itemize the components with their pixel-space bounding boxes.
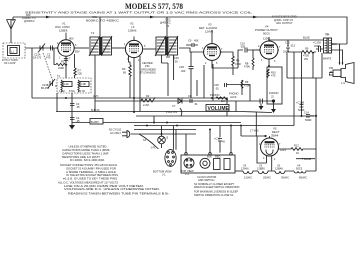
trimmer C21B (48, 79, 55, 88)
svg-text:5.5Ω: 5.5Ω (69, 89, 75, 93)
resistor R10 470 (267, 69, 269, 78)
wire V2 plate to T3 (144, 48, 156, 50)
svg-text:C8: C8 (188, 94, 192, 98)
svg-text:SWITCH OPERATION CLOSE S1.: SWITCH OPERATION CLOSE S1. (194, 193, 234, 197)
svg-text:C7: C7 (172, 104, 176, 108)
svg-text:PHONO: PHONO (269, 91, 279, 95)
svg-text:.012: .012 (290, 44, 296, 48)
phono contact dot (272, 99, 275, 102)
svg-text:@600KC: @600KC (24, 19, 35, 23)
resistor R2 2.2M (141, 98, 155, 103)
svg-text:18-175: 18-175 (33, 56, 42, 60)
svg-text:1K: 1K (296, 151, 299, 155)
terminals on clock box (185, 153, 232, 155)
svg-text:50C5: 50C5 (296, 166, 303, 170)
heater string (235, 171, 316, 174)
wire antenna branch down to AVC bus (31, 48, 33, 98)
svg-text:JACK: JACK (230, 95, 237, 99)
wire C10 to V4 grid (252, 49, 260, 51)
socket J1 bottom view (165, 150, 176, 167)
pilot lamp I1 (158, 126, 166, 148)
svg-text:L-S: L-S (341, 81, 345, 85)
B-bus (56, 112, 272, 113)
B+ bus (103, 122, 241, 124)
resistor R1 horizontal (56, 63, 67, 65)
wire 116 to B+ (153, 116, 155, 123)
capacitor C4 .05 (70, 118, 75, 120)
notes block (58, 145, 170, 196)
label 40% 600KC TO 455KC (86, 15, 119, 22)
ground below C4 (69, 125, 75, 130)
svg-text:R9: R9 (305, 47, 309, 51)
svg-text:85V: 85V (75, 50, 80, 54)
svg-text:1.4Ω: 1.4Ω (59, 89, 65, 93)
AC interlock plug P1 (122, 131, 130, 138)
svg-text:T2: T2 (91, 31, 95, 35)
svg-text:90V: 90V (69, 36, 74, 40)
AC line 2 from plug (131, 133, 196, 135)
wire T3 bottom stubs (161, 55, 173, 63)
wire V2 cathode down to B-bus (133, 62, 135, 112)
svg-text:600KC TO 455KC: 600KC TO 455KC (86, 18, 119, 22)
ground at phono center (273, 103, 275, 110)
svg-text:40MF: 40MF (314, 44, 321, 48)
svg-text:MODELS 577, 578: MODELS 577, 578 (125, 2, 183, 11)
wire osc coil mid leg down (71, 93, 73, 125)
volume pot arrow (226, 98, 228, 116)
svg-text:14.7Ω: 14.7Ω (78, 89, 85, 93)
svg-text:.05: .05 (76, 105, 80, 109)
antenna (7, 20, 16, 44)
resistor R9 4700 2W (288, 51, 316, 54)
loop antenna dashed box (3, 43, 25, 58)
svg-text:1M: 1M (221, 99, 225, 103)
svg-text:2W: 2W (304, 57, 308, 61)
tube V4 (259, 37, 279, 63)
svg-text:12AV6: 12AV6 (241, 166, 249, 170)
output transformer T4 (324, 33, 332, 53)
svg-text:WHEN IN SLEEP SWITCH OPERATION: WHEN IN SLEEP SWITCH OPERATION. (194, 185, 240, 189)
wire osc coil left leg down to B-bus (55, 86, 57, 112)
resistor R3 68 ohm (129, 65, 131, 98)
label OSC @455KC T3 (160, 17, 171, 28)
wire V1 plate to T2 (74, 47, 89, 49)
capacitor C8 .01 (190, 99, 192, 103)
svg-text:READINGS TAKEN BETWEEN TUBE PI: READINGS TAKEN BETWEEN TUBE PIN TERMINAL… (68, 191, 170, 195)
wire V4 cathode down (268, 63, 270, 67)
speaker LS (329, 63, 354, 84)
wire det grid loop (161, 63, 213, 101)
svg-text:25VAC: 25VAC (263, 176, 271, 180)
capacitor C15 (218, 126, 222, 145)
resistor R5 470K vertical (220, 52, 234, 75)
arrowhead on top bus mid (150, 16, 155, 19)
wire V3 top to bus (211, 30, 213, 40)
resistor R12 (279, 147, 317, 150)
svg-text:36VAC: 36VAC (281, 176, 289, 180)
junction dots on buses (65, 97, 317, 137)
svg-text:C14: C14 (304, 111, 309, 115)
wire right vertical x302 (301, 52, 303, 116)
svg-text:12BE6: 12BE6 (257, 166, 265, 170)
capacitor C2 470 (51, 46, 53, 51)
clock motor circle (200, 158, 210, 168)
switch S2 (214, 159, 231, 170)
svg-text:AND SWITCH: AND SWITCH (198, 178, 215, 182)
svg-text:AC ONLY: AC ONLY (110, 131, 121, 135)
svg-text:.01: .01 (194, 102, 198, 106)
capacitor C24 (64, 59, 68, 61)
tube V5 (261, 136, 280, 156)
svg-text:17 VAC: 17 VAC (250, 129, 259, 133)
svg-text:22K: 22K (78, 72, 83, 76)
ground at phono left (260, 104, 262, 107)
filter cap C14 (306, 115, 314, 118)
coil L4B (78, 80, 79, 92)
arrowheads to speaker (339, 63, 341, 66)
svg-text:470K: 470K (244, 65, 250, 69)
svg-text:T4: T4 (325, 33, 329, 37)
svg-text:AVC: AVC (93, 94, 99, 98)
arrowhead on top bus right (253, 16, 258, 19)
wire T4 secondary to speaker (332, 44, 348, 63)
wire J1 socket feeds (173, 126, 176, 150)
svg-text:470: 470 (46, 56, 51, 60)
svg-text:L4A: L4A (64, 82, 69, 86)
wires from clock box up (186, 126, 231, 153)
svg-text:@455KC: @455KC (160, 21, 171, 25)
svg-text:L4B: L4B (81, 82, 86, 86)
AVC bus (32, 97, 228, 99)
capacitor C10 .005 (245, 48, 252, 53)
wire right vertical x322 BLK down (287, 53, 322, 78)
resistor R7 vertical (74, 54, 76, 68)
svg-text:R3: R3 (122, 67, 126, 71)
wire V2 pin down left (129, 56, 131, 65)
svg-text:⏚PL: ⏚PL (150, 146, 156, 150)
svg-text:J-1: J-1 (162, 173, 166, 177)
B+95V boxed label (90, 119, 103, 125)
svg-text:B+95V: B+95V (91, 120, 99, 124)
svg-text:VOLUME: VOLUME (208, 106, 230, 112)
gang tuning dashed link (43, 53, 53, 81)
wire T2 secondary return (94, 55, 96, 112)
resistor R8 470K vertical (252, 50, 254, 70)
wire V5 heater down (271, 156, 273, 171)
wire right vertical x330 (315, 78, 317, 171)
wire C26 to phono box (227, 85, 250, 102)
svg-text:80-150: 80-150 (41, 86, 50, 90)
wire T2 to V2 (112, 47, 125, 49)
svg-text:12VAC: 12VAC (244, 176, 252, 180)
svg-text:35W4: 35W4 (271, 133, 279, 137)
svg-text:VAC OUTPUT: VAC OUTPUT (276, 21, 293, 25)
IF transformer T3 (155, 36, 178, 56)
capacitor C3 .05 (70, 104, 75, 106)
svg-text:2.2M: 2.2M (143, 103, 149, 107)
svg-text:C9: C9 (188, 39, 192, 43)
tube V1 (56, 36, 75, 60)
phono jack box J2 (267, 67, 282, 104)
wire V4 plate up and right to T4 (blue) (269, 37, 324, 40)
capacitor C11 at phono (260, 99, 263, 104)
svg-text:BLUE: BLUE (303, 36, 310, 40)
wire T3 top to bus (166, 17, 168, 38)
filter cap C13B (300, 105, 304, 108)
svg-text:220K: 220K (58, 66, 64, 70)
svg-text:SENSITIVITY AND STAGE GAINS AT: SENSITIVITY AND STAGE GAINS AT 1 WATT OU… (25, 10, 253, 14)
svg-text:470K: 470K (244, 83, 250, 87)
wire right vertical x313 (312, 52, 314, 78)
resistor R6 470K (241, 80, 243, 95)
wire V2 center pin down (139, 56, 141, 112)
detector output line (95, 100, 273, 102)
svg-text:B-BUS: B-BUS (91, 108, 100, 112)
svg-text:+C13B: +C13B (296, 101, 304, 105)
svg-text:R2: R2 (146, 94, 150, 98)
svg-text:.005: .005 (240, 44, 246, 48)
svg-text:K=1000, M=1,000,000.: K=1000, M=1,000,000. (70, 158, 105, 162)
wire T2 top to bus (99, 17, 101, 38)
wire right vertical x293 (293, 52, 295, 126)
loop antenna L1 (8, 46, 20, 56)
wire V1 grid down to osc coil (54, 48, 67, 78)
trimmer C21A (38, 44, 45, 53)
label 8 volts 50C5 grid (272, 15, 297, 25)
svg-text:C28: C28 (179, 65, 184, 69)
wire V1 top to bus (65, 33, 67, 36)
svg-text:.05: .05 (215, 86, 219, 90)
svg-text:120V: 120V (263, 36, 269, 40)
svg-text:50MF: 50MF (305, 118, 312, 122)
svg-text:S1: S1 (143, 138, 147, 142)
diode detector (176, 99, 182, 104)
wire C12 down (286, 52, 288, 78)
wire V3 plate coupling to V4 (212, 64, 238, 68)
svg-text:40K: 40K (194, 39, 199, 43)
svg-text:TO CHASSIS: TO CHASSIS (140, 71, 156, 75)
wire T3 to V3 (179, 48, 204, 52)
svg-text:400: 400 (181, 69, 186, 73)
svg-text:+C15: +C15 (214, 136, 221, 140)
wire AC to V5 plate (241, 136, 267, 163)
svg-text:R12: R12 (294, 144, 299, 148)
arrowhead on top bus left (46, 16, 51, 19)
line under volume (136, 115, 316, 117)
switch S1 lever (139, 134, 159, 149)
svg-text:RED: RED (215, 154, 221, 158)
plug P1 top view (184, 158, 194, 168)
volume control box (206, 105, 229, 112)
capacitor C13A (316, 46, 324, 52)
label 600 gain left (22, 13, 36, 23)
svg-text:470: 470 (271, 74, 276, 78)
svg-text:PULL ON: PULL ON (166, 110, 177, 114)
svg-text:PM: PM (329, 66, 333, 70)
tube V2 (125, 37, 144, 63)
svg-text:12BA6: 12BA6 (275, 166, 283, 170)
resistor R4 on AVC line (216, 97, 227, 99)
wire top sensitivity bus (13, 17, 347, 44)
oscillator coil T1 dashed box (57, 78, 91, 93)
capacitor C30 (186, 43, 198, 47)
tube V3 (203, 40, 222, 64)
AC line 1 (134, 113, 294, 137)
clock motor box (181, 155, 235, 173)
capacitor C12 .012 (286, 40, 290, 52)
wire loop to V1 grid (25, 47, 58, 49)
svg-text:12BA6: 12BA6 (128, 28, 137, 32)
IF transformer T2 (89, 31, 112, 56)
AC line 3 (134, 129, 196, 131)
svg-text:WHITE: WHITE (323, 57, 332, 61)
wire pot right to B- (235, 101, 237, 112)
svg-text:.05: .05 (174, 59, 178, 63)
svg-text:BLK: BLK (207, 154, 212, 158)
capacitor C28 (189, 52, 194, 98)
coil L4A (61, 80, 62, 92)
svg-text:12BE6: 12BE6 (59, 28, 68, 32)
capacitor C25 (166, 57, 170, 96)
svg-text:OF LOOP: OF LOOP (4, 61, 16, 65)
wire stub top bus to V1 (12, 17, 14, 21)
svg-text:50C5: 50C5 (263, 31, 270, 35)
svg-text:85VAC: 85VAC (299, 176, 307, 180)
